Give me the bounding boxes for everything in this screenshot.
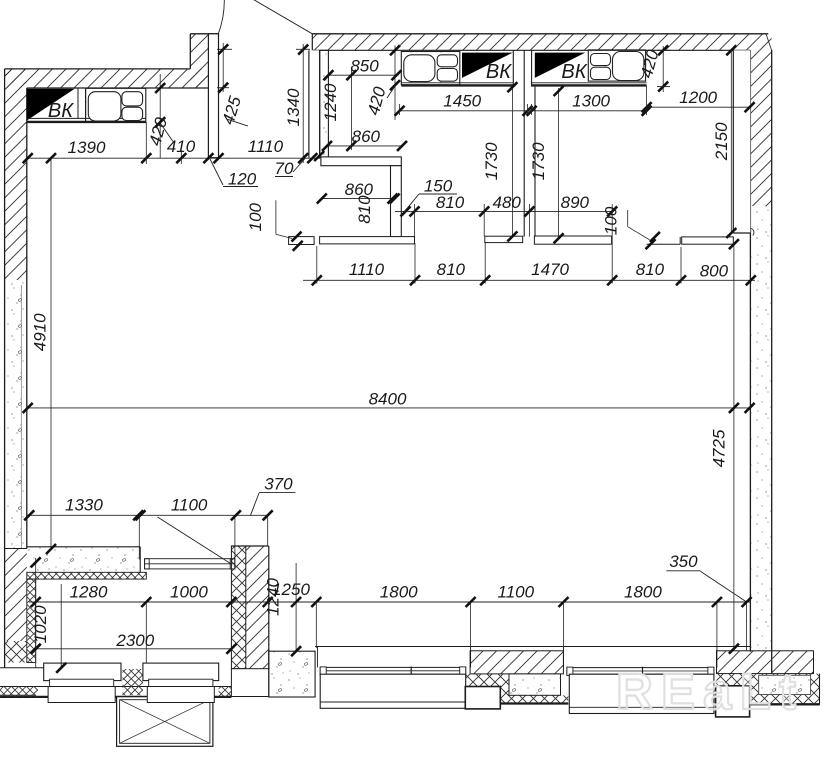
- svg-text:1100: 1100: [171, 496, 208, 515]
- svg-text:1110: 1110: [248, 137, 284, 156]
- svg-text:420: 420: [364, 84, 390, 117]
- wall: left exterior wall upper (hatched): [5, 69, 27, 668]
- svg-text:ВК: ВК: [561, 61, 587, 83]
- wall: pier 1100 crosshatch base: [465, 674, 568, 704]
- fixture: sink unit right bathroom: [588, 50, 645, 81]
- svg-text:REaLt: REaLt: [616, 663, 796, 720]
- svg-text:810: 810: [636, 260, 665, 279]
- svg-text:810: 810: [355, 195, 374, 224]
- fixture: sink unit mid bathroom: [401, 52, 460, 85]
- dimension row1 ticks: [23, 151, 325, 163]
- wall: pier 1100 (hatched): [470, 651, 563, 674]
- 350 extension lines: [717, 601, 747, 652]
- dimension 1020 vertical: [31, 557, 50, 668]
- wall: pilaster right (2150): [733, 50, 754, 235]
- row2 extension lines: [415, 204, 613, 247]
- svg-text:4725: 4725: [710, 429, 729, 467]
- dimension 2150 vertical: [712, 45, 736, 238]
- svg-text:425: 425: [219, 94, 246, 127]
- row4 extension lines: [139, 515, 267, 559]
- dimension row 1110/810/1470/810/800 line: [303, 279, 755, 281]
- column: concrete pier B: [320, 50, 329, 157]
- wall: stub S6: [682, 237, 734, 244]
- svg-text:1330: 1330: [65, 496, 103, 515]
- dimension row2 ticks: [410, 206, 618, 216]
- dimension 1450: [395, 92, 533, 116]
- label: VK1: [48, 100, 74, 122]
- svg-text:2150: 2150: [712, 122, 731, 161]
- dimension 810 vertical text: [355, 194, 411, 224]
- window: balcony door unit: [145, 559, 235, 569]
- dimension 860 upper: [322, 127, 407, 151]
- svg-text:1200: 1200: [679, 88, 717, 107]
- svg-text:120: 120: [228, 170, 257, 189]
- dimension 425 vertical: [217, 43, 248, 127]
- svg-text:100: 100: [602, 206, 621, 235]
- dimension 1200: [642, 86, 755, 115]
- wall: stub S4 (bath2 bottom): [534, 236, 611, 244]
- svg-text:1450: 1450: [443, 92, 481, 111]
- dimension text 1390: [68, 138, 106, 157]
- dimension text 350 with leader: [666, 552, 746, 602]
- dimension text 810 row2: [436, 193, 465, 212]
- extension line 146.3: [145, 122, 147, 164]
- window: W1 jambs: [318, 647, 471, 668]
- fixture: vent duct VK2 (black triangle): [462, 53, 513, 78]
- svg-text:1100: 1100: [498, 583, 535, 602]
- wall: room floor line bottom: [315, 646, 750, 648]
- wall: entry door jamb block (hatched): [190, 34, 218, 88]
- svg-text:1250: 1250: [272, 580, 310, 599]
- wall: top band right of door (hatched): [312, 34, 771, 51]
- wall: right exterior wall (hatch+concrete): [750, 50, 771, 673]
- wall: door-right partition A: [309, 50, 320, 157]
- wall: horizontal partition (hall/WC): [321, 157, 401, 166]
- wall: corner pier hatched block: [717, 651, 814, 674]
- svg-text:350: 350: [669, 552, 698, 571]
- dimension text 480: [493, 193, 522, 212]
- dimension 2300: [31, 631, 237, 654]
- dimension row5 ticks: [31, 597, 752, 607]
- wall: pier 1100 step box: [465, 687, 500, 709]
- dimension 850: [323, 57, 401, 81]
- balcony: crossed box: [117, 697, 213, 747]
- wall: balcony top band (concrete): [27, 547, 140, 573]
- window: W2 frame: [567, 667, 714, 676]
- dimension text 1250: [272, 580, 310, 599]
- svg-text:480: 480: [493, 193, 522, 212]
- dimension text 70 with leader: [275, 159, 305, 179]
- dimension 100 left: [246, 200, 303, 251]
- svg-text:1390: 1390: [68, 138, 106, 157]
- svg-text:800: 800: [700, 262, 729, 281]
- wall: insulation strip left (crosshatch): [27, 579, 36, 662]
- dimension text 1000: [170, 583, 208, 602]
- svg-text:2300: 2300: [115, 631, 154, 650]
- dimension text 370 with leader: [251, 475, 296, 516]
- label: VK3: [561, 61, 587, 83]
- svg-text:70: 70: [275, 159, 294, 178]
- dimension 1240 vertical: [321, 70, 356, 151]
- row3 extension lines: [317, 243, 681, 284]
- fixture: counter edge mid bathroom: [401, 83, 513, 86]
- dimension text 810 bottom left: [437, 260, 466, 279]
- dimension 420 left vertical: [145, 74, 173, 158]
- svg-text:1240: 1240: [321, 83, 340, 121]
- dimension text 810 bottom right: [636, 260, 665, 279]
- dimension 8400: [23, 390, 755, 413]
- dimension text 1800 left: [380, 583, 418, 602]
- dimension text 150 with leader: [405, 177, 458, 212]
- wall: WC partition C: [391, 166, 402, 237]
- svg-text:1300: 1300: [572, 92, 610, 111]
- fixture: vent duct VK1 (black triangle): [27, 89, 75, 121]
- window: balcony sill box 2: [147, 687, 214, 703]
- svg-text:1340: 1340: [284, 88, 303, 126]
- wall: balcony bottom crosshatch strips: [0, 669, 231, 697]
- dimension row 1280/1000 + 1800/1100/1800 line: [29, 601, 751, 603]
- svg-text:1800: 1800: [380, 583, 418, 602]
- wall: top-left band (hatched): [5, 69, 209, 88]
- svg-text:8400: 8400: [369, 390, 407, 409]
- dimension text 1800 right: [624, 583, 662, 602]
- dimension 1730 left: [482, 82, 517, 241]
- window: balcony window box 2: [143, 663, 219, 686]
- svg-text:370: 370: [264, 475, 293, 494]
- row5 extension lines: [146, 602, 563, 663]
- window: balcony sill box 1: [48, 687, 115, 703]
- extension line x61: [56, 584, 66, 673]
- dimension 420 mid vertical: [364, 45, 400, 120]
- dimension text 890: [561, 193, 590, 212]
- window: W2 jambs: [564, 647, 717, 668]
- svg-text:1110: 1110: [349, 260, 385, 279]
- svg-text:890: 890: [561, 193, 590, 212]
- svg-text:810: 810: [436, 193, 465, 212]
- dimension text 800: [700, 262, 729, 281]
- wall: insulation strip top (crosshatch): [27, 572, 147, 579]
- door: entry swing arc: [218, 0, 224, 34]
- fixture: counter edge left bathroom: [27, 118, 146, 122]
- wall: stub S3 (bath1 bottom): [485, 236, 523, 242]
- svg-text:ВК: ВК: [486, 61, 512, 83]
- dimension text 410: [167, 137, 196, 156]
- dimension text 1280: [70, 583, 108, 602]
- dimension 1340 vertical: [284, 44, 310, 163]
- wall: concrete footing block: [269, 651, 315, 697]
- fixture: vent duct VK3 (black triangle): [535, 53, 586, 78]
- dimension 1730 right: [529, 86, 564, 243]
- svg-text:1730: 1730: [529, 142, 548, 180]
- svg-text:860: 860: [352, 127, 381, 146]
- window: W1 sill box: [320, 674, 466, 708]
- door: entry leaf: [231, 0, 312, 34]
- wall: balcony left wall (hatched): [5, 549, 27, 663]
- window: balcony sill lines left edge: [0, 668, 231, 697]
- wall: corner concrete inset: [759, 675, 811, 694]
- wall: bathroom divider: [513, 50, 535, 236]
- dimension text 1110 bottom: [349, 260, 385, 279]
- dimension row 1390/410/1110 line: [27, 157, 320, 159]
- wall: entry jamb strip: [208, 34, 218, 158]
- dimension row 1330/1100 line: [27, 514, 268, 516]
- wall: pier 1100 concrete block: [509, 674, 561, 695]
- window: W1 frame: [320, 667, 466, 676]
- svg-text:810: 810: [437, 260, 466, 279]
- svg-text:1470: 1470: [531, 260, 569, 279]
- dimension row4 ticks: [24, 510, 273, 520]
- window: balcony window box 1: [44, 663, 121, 686]
- dimension 420 right vertical: [637, 45, 670, 92]
- wall: foot of partition C: [391, 237, 415, 243]
- dimension row 810/480/890 line: [395, 210, 612, 212]
- fixture: counter edge right bathroom: [532, 83, 647, 86]
- fixture: kitchen sink unit left: [86, 88, 146, 122]
- dimension text 120 with leader: [210, 159, 258, 189]
- dimension text 1100b: [498, 583, 535, 602]
- svg-text:1020: 1020: [31, 605, 50, 643]
- svg-text:1730: 1730: [482, 142, 501, 180]
- dimension 4725 vertical: [710, 239, 739, 654]
- dimension 100 right: [602, 206, 660, 249]
- window: W2 sill box: [569, 674, 714, 713]
- extension line 181.3: [180, 150, 182, 164]
- dimension 1240 balcony vertical: [264, 563, 302, 656]
- wall: corner step box: [716, 686, 750, 717]
- svg-text:1000: 1000: [170, 583, 208, 602]
- wall: stub S1: [289, 237, 315, 245]
- svg-text:100: 100: [246, 202, 265, 231]
- wall: stub S2: [320, 237, 415, 244]
- dimension text 1330: [65, 496, 103, 515]
- dimension 1300: [527, 92, 652, 116]
- svg-text:1800: 1800: [624, 583, 662, 602]
- wall: stub S5 segment: [647, 237, 681, 244]
- svg-text:4910: 4910: [31, 313, 50, 351]
- dimension 860 lower: [317, 180, 398, 204]
- door: balcony swing line: [158, 517, 232, 564]
- watermark REaLt: [616, 663, 796, 720]
- wall: corner crosshatch block: [716, 674, 820, 705]
- dimension text 1110 top: [248, 137, 284, 156]
- dimension row3 ticks: [312, 275, 756, 285]
- dimension text 1100a: [171, 496, 208, 515]
- dimension 4910 vertical: [31, 153, 57, 554]
- svg-text:1280: 1280: [70, 583, 108, 602]
- label: VK2: [486, 61, 512, 83]
- wall: balcony right pier (crosshatch+hatch): [231, 546, 268, 669]
- wall: box under balcony pier: [231, 669, 268, 697]
- fixture: VK1 compartment edge: [78, 88, 86, 118]
- dimension text 1470: [531, 260, 569, 279]
